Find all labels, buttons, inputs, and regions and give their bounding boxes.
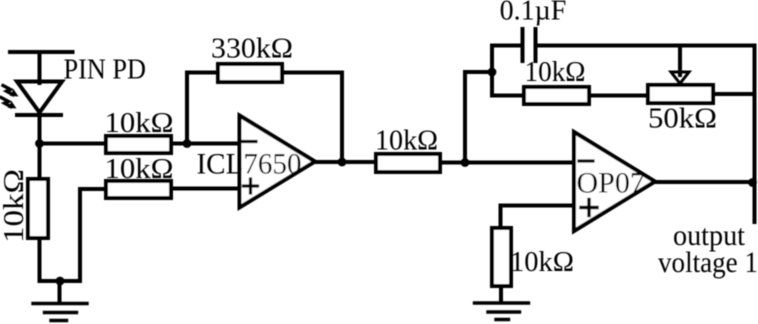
wire: feedback right leg	[282, 73, 342, 163]
wire: R2 to ICL7650 inverting input	[171, 142, 240, 146]
svg-text:10kΩ: 10kΩ	[510, 246, 574, 278]
wire: node E up to C1	[492, 46, 521, 73]
svg-text:OP07: OP07	[577, 167, 645, 200]
svg-text:PIN PD: PIN PD	[64, 54, 147, 86]
U1 minus marker	[243, 140, 256, 143]
wire: R5 to OP07 inverting input	[440, 161, 574, 165]
op-amp U1 ICL7650	[240, 116, 316, 208]
potentiometer RP1 50k	[648, 85, 713, 103]
wire: U1 output	[315, 160, 376, 164]
wire: R7 to ground	[499, 286, 503, 302]
wire: R3 to ICL7650 noninverting input	[171, 187, 240, 191]
photodiode D1 top terminal bar	[10, 50, 73, 54]
wire: node D up to feedback net	[465, 72, 492, 163]
U1 plus marker	[244, 179, 258, 193]
ground G1	[33, 304, 87, 321]
wire: R6 to RP1	[589, 94, 648, 98]
wire: node A to R2	[40, 142, 107, 146]
resistor R3 10k	[106, 181, 171, 198]
wire: C1 right lead	[538, 44, 755, 48]
ground G2	[475, 303, 529, 320]
RP1 wiper arrow	[671, 46, 689, 84]
label output voltage 1	[658, 219, 758, 279]
wire: U2 noninverting input leg	[501, 206, 575, 229]
wire: node E down to R6	[492, 72, 524, 96]
resistor R5 10k	[376, 154, 440, 172]
svg-text:ICL7650: ICL7650	[197, 148, 302, 181]
svg-text:330kΩ: 330kΩ	[211, 33, 293, 65]
wire: RP1 right lead	[713, 92, 755, 96]
wire: photodiode anode lead	[38, 53, 42, 84]
node F output junction dot	[748, 178, 757, 187]
wire: cathode down to node A	[38, 115, 42, 179]
U2 minus marker	[579, 159, 593, 162]
op-amp U2 OP07	[574, 132, 655, 231]
svg-text:10kΩ: 10kΩ	[525, 56, 586, 88]
capacitor C1 0.1uF	[523, 29, 536, 61]
resistor R4 330k feedback	[218, 64, 282, 82]
wire: right feedback vertical	[753, 46, 757, 223]
photodiode light arrow 2	[1, 98, 17, 109]
node B junction dot	[183, 139, 192, 148]
svg-text:10kΩ: 10kΩ	[105, 153, 174, 185]
wire: R3 left leg	[80, 189, 106, 281]
wire: feedback left leg	[187, 73, 218, 144]
svg-text:10kΩ: 10kΩ	[0, 169, 30, 243]
resistor R7 10k vertical	[492, 228, 511, 286]
U2 plus marker	[581, 200, 597, 216]
photodiode light arrow 1	[3, 86, 19, 97]
node C junction dot	[338, 158, 347, 167]
junction dot ground node	[56, 277, 65, 286]
svg-text:10kΩ: 10kΩ	[105, 107, 174, 139]
svg-text:10kΩ: 10kΩ	[375, 125, 438, 157]
wire: U2 output	[655, 180, 755, 184]
resistor R1 10k vertical	[28, 179, 48, 238]
wire: R1 bottom down	[38, 238, 42, 281]
svg-text:voltage 1: voltage 1	[658, 246, 758, 279]
resistor R2 10k	[106, 136, 171, 153]
node D junction dot	[461, 158, 470, 167]
photodiode D1 PIN PD	[17, 82, 62, 116]
wire: ground stub	[58, 281, 62, 302]
svg-text:0.1µF: 0.1µF	[500, 0, 567, 27]
wire: bottom link	[40, 279, 81, 283]
resistor R6 10k feedback	[524, 87, 589, 104]
node A junction dot	[35, 139, 44, 148]
svg-text:50kΩ: 50kΩ	[648, 103, 717, 135]
node E junction dot	[488, 68, 497, 77]
